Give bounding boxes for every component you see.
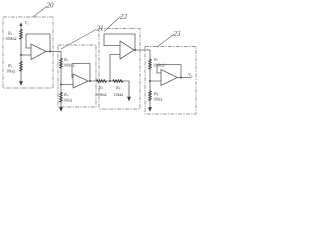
wire node B down to R4 bbox=[60, 85, 62, 93]
label 20 leader line bbox=[33, 7, 47, 18]
label 23 leader line bbox=[157, 35, 174, 48]
op-amp U1 bbox=[31, 44, 46, 60]
wire U3 minus stub bbox=[104, 45, 120, 47]
wire U2 output into box 22 bbox=[95, 80, 98, 82]
wire U1 output down to R3 bbox=[60, 52, 62, 59]
node B junction bbox=[60, 84, 62, 86]
wire node A to plus input U1 bbox=[21, 54, 31, 56]
ground arrow stage 2 bbox=[59, 107, 63, 112]
svg-text:22: 22 bbox=[120, 13, 128, 21]
ground arrow stage 1 bbox=[19, 81, 23, 86]
wire U1 minus stub bbox=[26, 47, 31, 49]
op-amp U4 bbox=[161, 70, 177, 86]
wire R6 to ground corner bbox=[123, 81, 129, 97]
svg-text:R6: R6 bbox=[115, 85, 121, 91]
wire U1 output bbox=[46, 51, 61, 53]
svg-text:100kΩ: 100kΩ bbox=[63, 62, 75, 67]
resistor R2 bbox=[20, 62, 23, 72]
wire U1 feedback loop bbox=[26, 34, 50, 52]
wire U2 feedback loop bbox=[72, 64, 90, 82]
svg-text:Vi: Vi bbox=[25, 20, 29, 26]
svg-text:20: 20 bbox=[47, 2, 55, 10]
node C junction bbox=[109, 80, 111, 82]
dashed box 20 bbox=[3, 17, 53, 88]
wire R2 to ground bbox=[20, 72, 22, 82]
resistor R7 bbox=[149, 60, 152, 70]
wire U4 minus stub bbox=[157, 72, 161, 74]
wire R7 to node D bbox=[149, 70, 151, 82]
svg-text:100kΩ: 100kΩ bbox=[5, 36, 17, 41]
wire R5 to node C bbox=[107, 80, 114, 82]
op-amp U2 bbox=[73, 74, 88, 88]
svg-text:Vo: Vo bbox=[188, 72, 193, 78]
node U1 output junction bbox=[49, 51, 51, 53]
svg-text:10kΩ: 10kΩ bbox=[6, 68, 16, 73]
label 22 leader line bbox=[105, 17, 121, 32]
wire U4 output bbox=[177, 77, 191, 79]
wire R4 to ground bbox=[60, 103, 62, 108]
node U4 output junction bbox=[180, 77, 182, 79]
wire U2 output bbox=[88, 80, 96, 82]
resistor R1 bbox=[20, 30, 23, 40]
svg-text:R5: R5 bbox=[98, 85, 104, 91]
resistor R8 bbox=[149, 91, 152, 101]
ground arrow stage 4 bbox=[148, 107, 152, 112]
wire node A down to R2 bbox=[20, 55, 22, 62]
wire R1 to node A bbox=[20, 40, 22, 56]
node U2 output junction bbox=[89, 80, 91, 82]
op-amp U3 bbox=[120, 41, 134, 59]
node Vin input terminal bbox=[19, 22, 22, 26]
ground arrow stage 3 bbox=[127, 97, 131, 102]
svg-text:10kΩ: 10kΩ bbox=[114, 92, 124, 97]
dashed box 21 bbox=[58, 45, 96, 107]
wire node B to plus input U2 bbox=[61, 84, 73, 86]
wire U3 feedback loop bbox=[104, 34, 135, 50]
wire R8 to ground bbox=[149, 101, 151, 108]
wire node D to plus input U4 bbox=[150, 80, 161, 82]
node A junction bbox=[20, 54, 22, 56]
label 21 leader line bbox=[61, 30, 96, 50]
wire node D down to R8 bbox=[149, 81, 151, 91]
wire input vertical top bbox=[20, 26, 22, 30]
svg-text:23: 23 bbox=[174, 30, 182, 38]
wire U4 feedback loop bbox=[157, 65, 181, 78]
wire U3 output bbox=[134, 49, 150, 51]
dashed box 22 bbox=[99, 29, 140, 110]
resistor R5 horizontal bbox=[97, 80, 107, 83]
node D junction bbox=[149, 80, 151, 82]
resistor R4 bbox=[60, 93, 63, 103]
wire R3 to node B bbox=[60, 69, 62, 85]
wire node C riser to plus input U3 bbox=[110, 55, 120, 82]
svg-text:10kΩ: 10kΩ bbox=[153, 96, 163, 101]
resistor R6 horizontal bbox=[113, 80, 123, 83]
dashed box 23 bbox=[145, 47, 196, 115]
svg-text:10kΩ: 10kΩ bbox=[63, 97, 73, 102]
svg-text:100kΩ: 100kΩ bbox=[95, 92, 107, 97]
resistor R3 bbox=[60, 59, 63, 69]
node U3 output junction bbox=[134, 49, 136, 51]
wire U3 output down to R7 bbox=[149, 50, 151, 60]
